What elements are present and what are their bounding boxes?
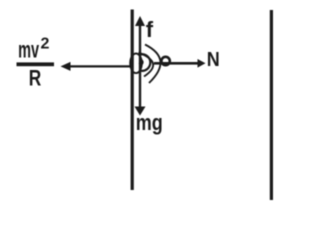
svg-text:mg: mg [136, 110, 163, 135]
svg-text:N: N [207, 49, 220, 71]
svg-text:f: f [146, 17, 154, 42]
svg-text:2: 2 [41, 36, 50, 53]
svg-text:R: R [29, 66, 42, 91]
svg-text:mv: mv [18, 37, 39, 63]
